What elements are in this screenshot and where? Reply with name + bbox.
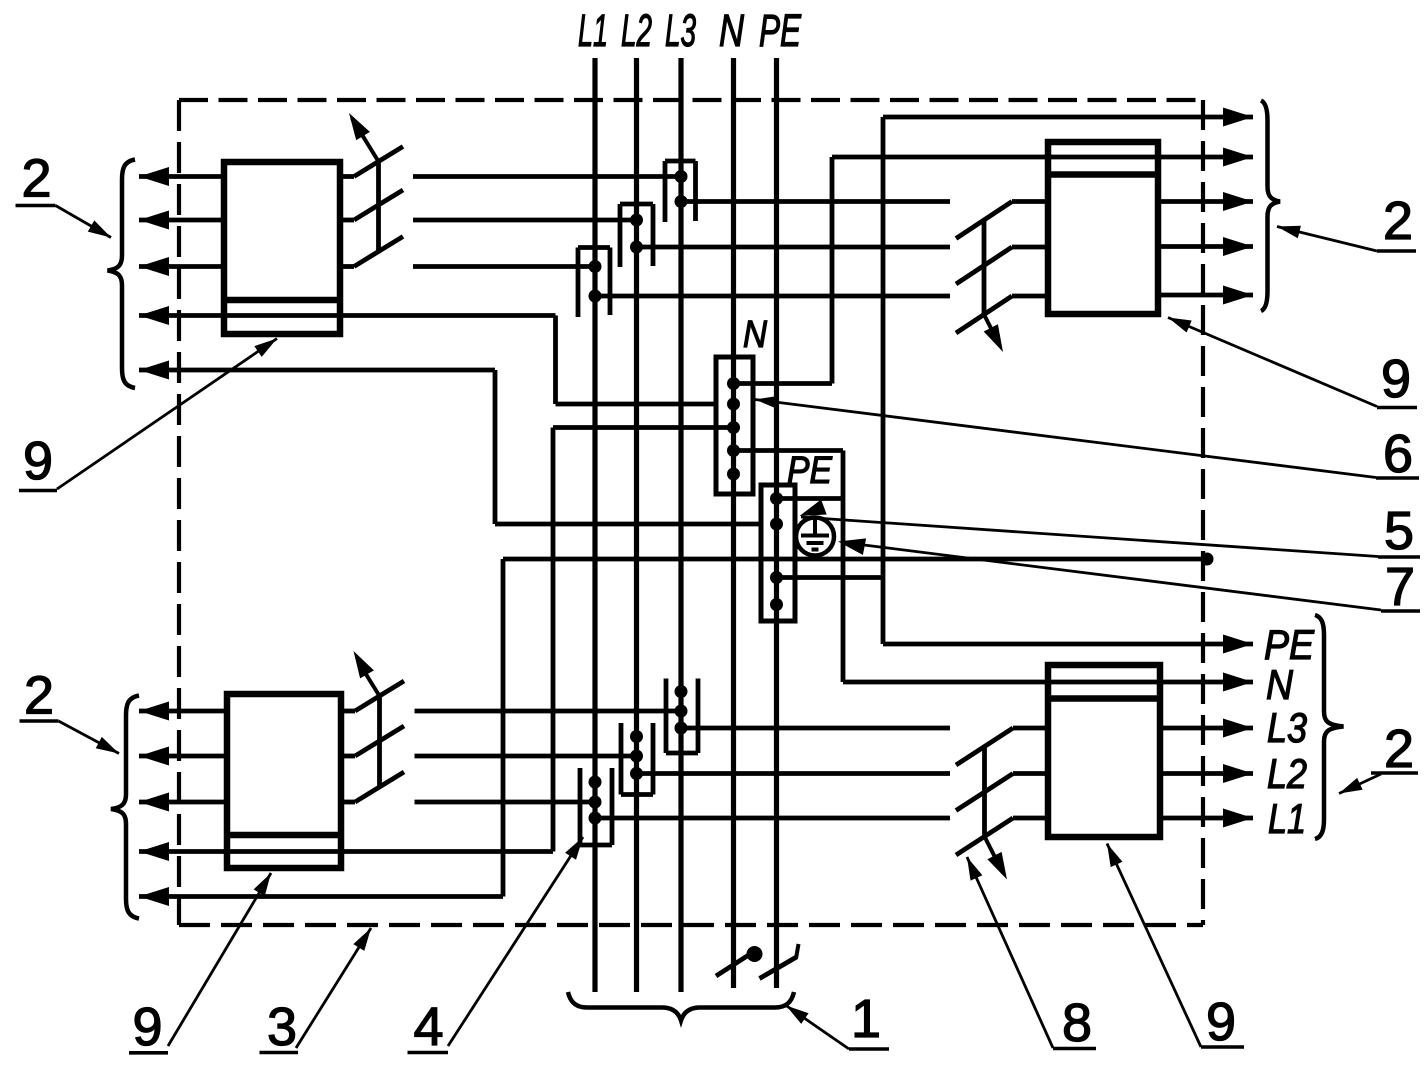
- svg-text:4: 4: [413, 997, 443, 1057]
- wire output L1 top-left with arrow: [139, 167, 224, 186]
- label 9 mid-left: [19, 431, 57, 491]
- tap clamp on L3 (top): [665, 161, 696, 222]
- brace group 2 top-left: [108, 160, 136, 389]
- switch Q2 linkage: [982, 220, 987, 315]
- wire L3 tap to top-right switch: [681, 199, 950, 204]
- bus L2: [634, 58, 639, 992]
- wire Q3 to L1 tap: [415, 800, 596, 805]
- tap clamp on L2 (top): [620, 204, 653, 267]
- label L2 (output): [1267, 750, 1307, 797]
- wire PE feeder bottom-left with arrow: [139, 887, 503, 906]
- bus PE: [774, 58, 779, 988]
- leader 9 bottom-left: [168, 873, 271, 1046]
- wire output L1 bottom-left with arrow: [139, 702, 227, 721]
- switch Q2 stubs: [1012, 202, 1048, 297]
- ground symbol circle: [796, 518, 834, 556]
- svg-text:2: 2: [24, 666, 54, 726]
- enclosure dashed border (pos 3): [179, 100, 1203, 925]
- block U3 bottom-left (pos 9): [227, 694, 341, 868]
- wire L1 output top-right: [1158, 286, 1253, 305]
- wire L1 output bottom-right: [1160, 809, 1253, 828]
- junction dots L2 top tap: [630, 214, 643, 254]
- wire output L3 top-left with arrow: [139, 257, 224, 276]
- wire N terminal to bottom-right block: [734, 451, 844, 683]
- wire output L2 bottom-left with arrow: [139, 747, 227, 766]
- switch Q1 stubs (top-left): [340, 177, 354, 267]
- svg-text:L1: L1: [578, 5, 608, 56]
- block U1 top-left (pos 9): [224, 162, 340, 334]
- wire L2 tap to top-right switch: [637, 245, 951, 250]
- leader 9 right: [1168, 318, 1377, 407]
- svg-text:N: N: [743, 314, 767, 356]
- wire N feeder from top-left block to N terminal (via strip): [139, 306, 734, 404]
- wire N terminal to top-right block: [734, 381, 833, 386]
- block U4 bottom-right (pos 9): [1048, 665, 1160, 837]
- switch Q3 actuator arrow: [354, 651, 380, 696]
- label 5 right: [1378, 501, 1420, 561]
- svg-text:L1: L1: [1268, 795, 1306, 842]
- label 2 bottom-right: [1371, 719, 1418, 779]
- label L1: [578, 5, 608, 56]
- svg-text:N: N: [719, 5, 744, 56]
- label L3: [665, 5, 696, 56]
- bond point on enclosure border: [1201, 553, 1214, 566]
- label 2 top-left: [16, 149, 56, 209]
- wire output L2 top-left with arrow: [139, 211, 224, 230]
- svg-text:2: 2: [1384, 719, 1414, 779]
- wire L2 output bottom-right: [1160, 764, 1253, 783]
- switch Q1 actuator arrow: [349, 113, 379, 162]
- svg-text:2: 2: [21, 149, 51, 209]
- wire N feeder from bottom-left block to N terminal (via strip): [139, 428, 734, 862]
- junction dots on N terminal: [727, 377, 740, 481]
- wire N output bottom-right (through strip): [843, 673, 1253, 692]
- wire PE terminal to right blocks: [777, 575, 884, 580]
- switch Q1 blades: [354, 147, 403, 267]
- wire Q1 to L2 tap: [413, 218, 637, 223]
- leader 5 right (to PE terminal): [800, 500, 1379, 557]
- label 9 bottom-right: [1201, 992, 1244, 1052]
- svg-text:9: 9: [23, 431, 53, 491]
- label PE (output): [1264, 621, 1315, 668]
- wire L3 output top-right: [1158, 192, 1253, 211]
- label L2: [621, 5, 652, 56]
- svg-text:9: 9: [1206, 992, 1236, 1052]
- switch Q3 blades: [355, 681, 404, 802]
- wire L3 bottom tap to bottom-right switch: [681, 726, 950, 731]
- switch Q3 linkage: [377, 696, 382, 787]
- tap clamp on L2 (bottom): [621, 723, 653, 795]
- switch Q2 actuator arrow: [984, 315, 1003, 353]
- disconnect blade on PE with tick: [760, 944, 799, 979]
- bus N: [731, 58, 736, 988]
- bus L3: [678, 58, 683, 992]
- wire PE feeder from top-left block to PE terminal: [139, 361, 777, 525]
- wire L3 output bottom-right: [1160, 719, 1253, 738]
- leader 3 bottom: [296, 928, 371, 1048]
- svg-text:9: 9: [132, 997, 162, 1057]
- label 8 bottom: [1053, 993, 1096, 1053]
- label L1 (output): [1268, 795, 1306, 842]
- label 2 top-right: [1377, 191, 1416, 251]
- svg-text:L2: L2: [1267, 750, 1307, 797]
- label N (bus): [719, 5, 744, 56]
- switch Q4 linkage: [982, 747, 987, 837]
- wire Q1 to L3 tap: [413, 174, 681, 179]
- junction dots L1 top tap: [589, 260, 602, 303]
- leader 1 bottom: [786, 1006, 849, 1050]
- wire L2 output top-right: [1158, 237, 1253, 256]
- junction dots L3 bottom tap: [675, 685, 688, 735]
- wire L1 tap to top-right switch: [595, 294, 950, 299]
- label 1 bottom: [849, 989, 889, 1049]
- junction dots on PE terminal: [770, 492, 783, 611]
- svg-text:1: 1: [851, 989, 881, 1049]
- label L3 (output): [1267, 704, 1307, 751]
- svg-text:9: 9: [1381, 349, 1411, 409]
- label N (terminal): [743, 314, 767, 356]
- svg-text:L3: L3: [1267, 704, 1307, 751]
- bus L1: [592, 58, 597, 992]
- leader 6 right (to N terminal): [755, 396, 1376, 478]
- tap clamp on L1 (bottom, pos 4): [580, 768, 612, 845]
- svg-text:PE: PE: [787, 450, 833, 492]
- leader 9 bottom-right: [1107, 844, 1201, 1048]
- terminal block PE (pos 5): [761, 485, 795, 621]
- wire PE output top-right with arrow: [883, 108, 1253, 645]
- wire L1 bottom tap to bottom-right switch: [595, 816, 950, 821]
- svg-text:PE: PE: [759, 5, 802, 56]
- svg-text:N: N: [1266, 661, 1294, 708]
- leader 8 bottom: [967, 857, 1053, 1048]
- label PE (terminal): [787, 450, 833, 492]
- wire Q3 to L2 tap: [415, 754, 637, 759]
- brace group 2 bottom-left: [111, 696, 139, 919]
- wire Q1 to L1 tap: [413, 264, 595, 269]
- label N (output): [1266, 661, 1294, 708]
- wire PE output bottom-right with arrow: [883, 635, 1253, 654]
- wire N output top-right (through strip): [832, 148, 1253, 384]
- brace group 2 top-right: [1261, 101, 1280, 312]
- wire L2 bottom tap to bottom-right switch: [637, 771, 951, 776]
- svg-text:3: 3: [267, 997, 297, 1057]
- label 6 right: [1376, 424, 1419, 484]
- leader 9 mid-left: [57, 339, 277, 490]
- leader 2 top-right: [1277, 226, 1377, 251]
- svg-text:2: 2: [1383, 191, 1413, 251]
- switch Q4 blades (pos 8): [956, 728, 1013, 855]
- wire output L3 bottom-left with arrow: [139, 793, 227, 812]
- terminal block N (pos 6): [716, 357, 753, 494]
- leader 2 top-left: [56, 206, 112, 238]
- svg-text:8: 8: [1062, 993, 1092, 1053]
- leader 2 bottom-left: [59, 721, 120, 754]
- svg-text:L2: L2: [621, 5, 652, 56]
- label 2 bottom-left: [20, 666, 59, 726]
- disconnect blade on N with ball: [716, 946, 763, 976]
- svg-text:7: 7: [1385, 557, 1415, 617]
- block U2 top-right (pos 9): [1048, 142, 1158, 314]
- wire Q3 to L3 tap: [415, 709, 682, 714]
- switch Q4 stubs: [1013, 728, 1048, 818]
- svg-text:6: 6: [1383, 424, 1413, 484]
- label 3 bottom: [260, 997, 299, 1057]
- bond wire from bottom-left PE to enclosure: [503, 559, 1207, 897]
- brace incoming lines (pos 1): [568, 992, 794, 1021]
- tap clamp on L3 (bottom): [666, 679, 698, 754]
- leader 2 bottom-right: [1339, 774, 1381, 794]
- switch Q4 actuator arrow: [985, 837, 1008, 880]
- leader 7 right (to ground symbol): [838, 538, 1381, 610]
- junction dots L1 bottom tap: [589, 776, 602, 825]
- label 9 bottom-left: [129, 997, 168, 1057]
- brace group 2 bottom-right: [1315, 615, 1344, 839]
- leader 4 bottom: [448, 837, 583, 1046]
- label 4 bottom: [408, 997, 449, 1057]
- svg-text:5: 5: [1384, 501, 1414, 561]
- label 9 right: [1377, 349, 1417, 409]
- switch Q3 stubs (bottom-left): [341, 711, 355, 802]
- tap clamp on L1 (top): [578, 248, 610, 318]
- label 7 right: [1381, 557, 1420, 617]
- junction dots L2 bottom tap: [630, 730, 643, 780]
- junction dots L3 top tap: [675, 170, 688, 208]
- switch Q2 blades (top-right): [956, 202, 1012, 334]
- label PE (bus): [759, 5, 802, 56]
- PE label frame stroke: [777, 496, 843, 501]
- switch Q1 linkage: [376, 162, 381, 252]
- svg-text:L3: L3: [665, 5, 696, 56]
